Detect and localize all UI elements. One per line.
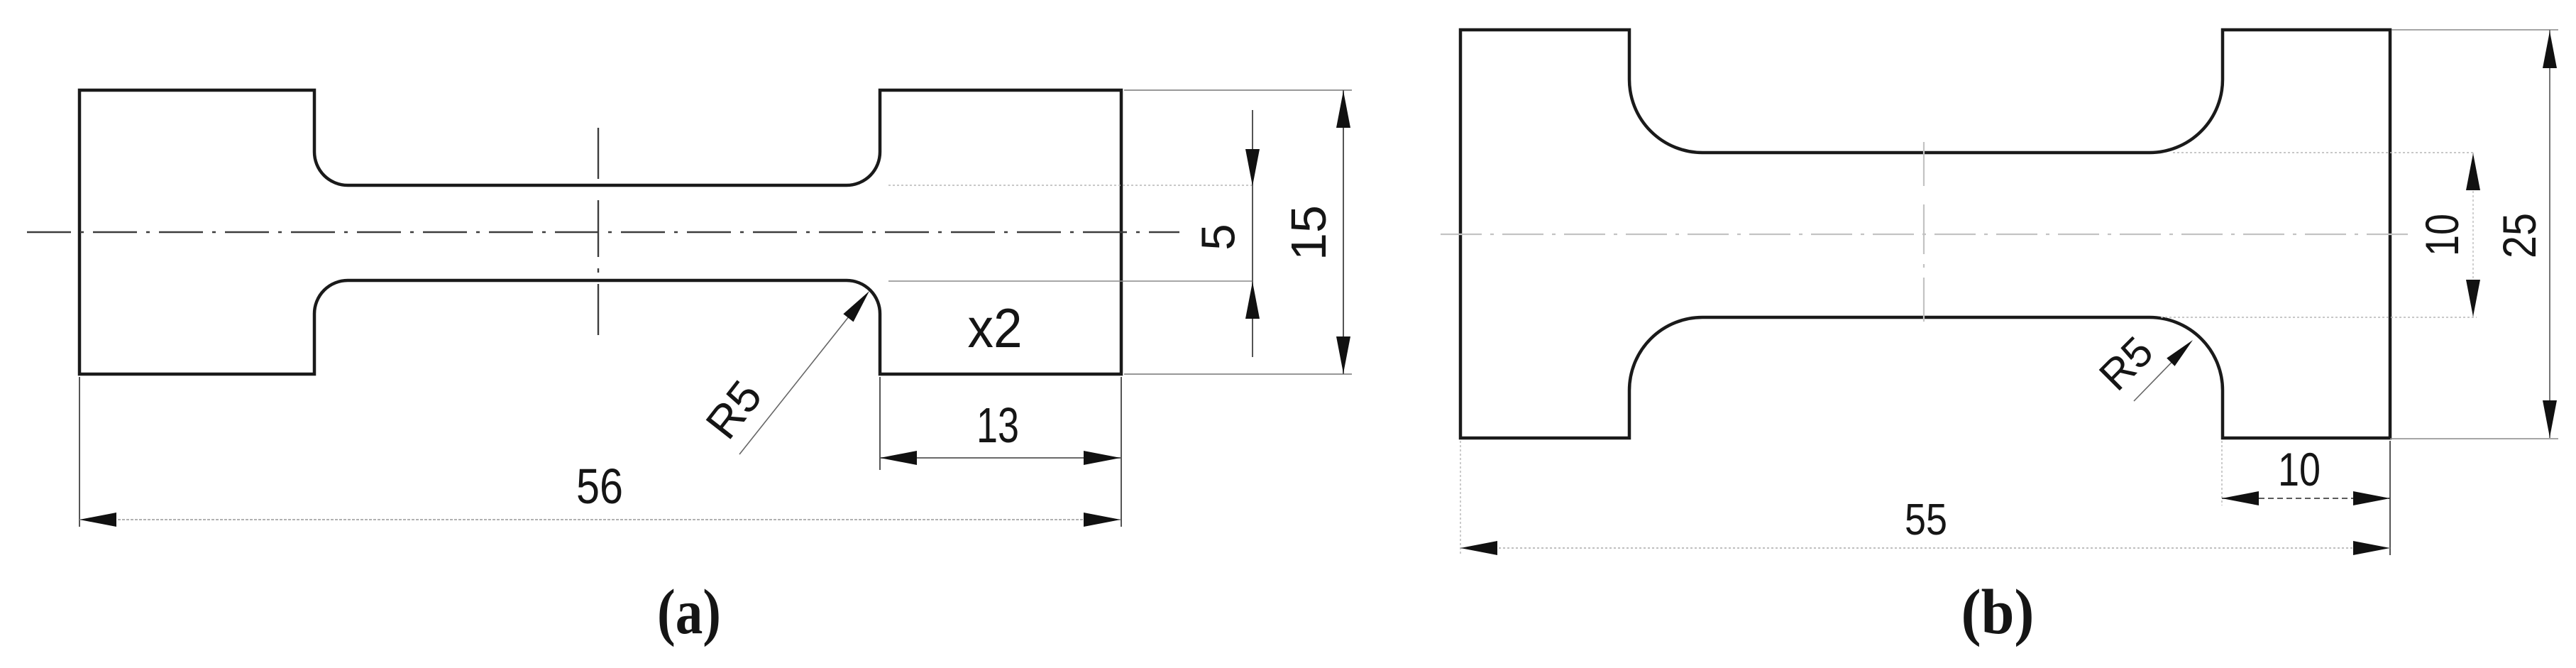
dimension line 10 right (b) [2472,153,2474,317]
centerline horizontal (a) [27,231,1179,233]
extension line 13-left (a) [879,377,881,470]
arrow 10-bottom left [2222,491,2259,505]
arrow 5 top [1245,149,1260,186]
extension line narrow-bottom (b) [2161,317,2477,318]
arrow 5 bottom [1245,282,1260,319]
svg-text:(a): (a) [657,577,721,647]
svg-text:10: 10 [2416,214,2468,256]
extension line grip-bottom (b) for 25 [2390,438,2558,439]
arrow R5 (a) [843,287,874,322]
arrow 56 right [1084,513,1121,527]
extension line grip-top (a) for 15 [1124,89,1352,91]
dimension line 13 (a) [880,457,1121,459]
arrow 25 top [2543,31,2557,68]
specimen (b) outline [1460,30,2390,438]
dimension line 15 (a) [1343,90,1344,374]
svg-text:(b): (b) [1961,577,2035,647]
leader R5 (b) [2134,349,2184,401]
extension line grip-top (b) for 25 [2391,29,2558,31]
centerline horizontal (b) [1441,234,2413,235]
svg-text:13: 13 [976,398,1019,453]
arrow 55 right [2353,541,2390,555]
leader R5 (a) [739,302,860,454]
dimension line 5 (a) [1252,110,1253,357]
svg-text:56: 56 [576,459,623,514]
arrow 55 left [1460,541,1497,555]
extension line narrow-bottom (a) [888,280,1253,282]
svg-text:25: 25 [2493,213,2545,258]
extension line grip-bottom (a) for 15 [1124,373,1352,375]
arrow 10-right bottom [2466,280,2480,317]
arrow 10-right top [2466,153,2480,190]
arrow 56 left [79,513,116,527]
center mark vertical (b) [1923,142,1925,325]
arrow R5 (b) [2167,336,2196,366]
extension line 10-left (b) [2221,441,2223,505]
center mark vertical (a) [598,128,599,338]
svg-text:10: 10 [2278,443,2321,495]
extension line right (a) for 56 and 13 [1121,377,1122,527]
arrow 10-bottom right [2353,491,2390,505]
extension line left (b) for 55 [1460,441,1461,555]
specimen (a) outline [79,90,1121,374]
arrow 25 bottom [2543,400,2557,437]
svg-text:55: 55 [1905,495,1947,544]
arrow 15 top [1336,91,1350,128]
svg-text:5: 5 [1192,224,1245,250]
extension line narrow-top (a) [888,185,1253,186]
dimension line 56 (a) [79,519,1121,520]
svg-text:x2: x2 [968,297,1023,359]
extension line right (b) for 55 [2389,441,2391,555]
arrow 13 left [880,451,917,465]
arrow 15 bottom [1336,336,1350,373]
dimension line 55 (b) [1460,547,2390,549]
dimension line 10 bottom (b) [2222,498,2390,499]
dimension line 25 (b) [2549,30,2550,438]
arrow 13 right [1084,451,1121,465]
svg-text:15: 15 [1281,205,1336,261]
extension line narrow-top (b) [2173,152,2473,153]
extension line left (a) for 56 [79,377,80,527]
